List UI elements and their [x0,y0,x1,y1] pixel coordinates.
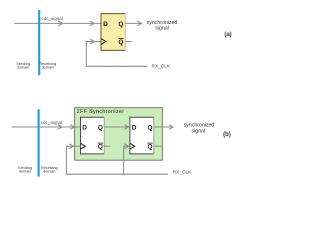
svg-text:(a): (a) [224,32,231,38]
svg-text:Q: Q [118,39,123,46]
svg-text:Q: Q [98,144,103,151]
svg-text:RX_CLK: RX_CLK [173,170,192,176]
svg-text:domain: domain [42,66,54,70]
svg-text:2FF Synchronizer: 2FF Synchronizer [77,109,125,115]
svg-text:D: D [132,124,137,131]
svg-text:domain: domain [19,170,31,174]
svg-text:Q: Q [148,144,153,151]
svg-text:(b): (b) [223,132,231,138]
svg-text:domain: domain [43,170,55,174]
svg-text:cdc_signal: cdc_signal [41,120,62,125]
svg-text:Q: Q [148,124,153,131]
svg-text:signal: signal [192,129,206,135]
svg-text:Q: Q [118,21,123,28]
svg-text:domain: domain [17,66,29,70]
svg-text:RX_CLK: RX_CLK [152,64,171,70]
svg-text:D: D [82,124,87,131]
svg-text:D: D [103,21,108,28]
svg-text:cdc_signal: cdc_signal [42,16,63,21]
svg-text:Q: Q [98,124,103,131]
svg-text:signal: signal [155,26,169,32]
